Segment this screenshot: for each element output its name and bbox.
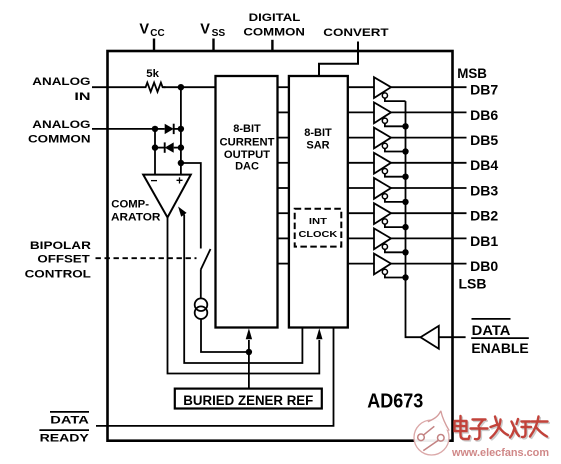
svg-text:DATA: DATA (50, 414, 89, 426)
outer block boundary box (108, 51, 453, 441)
wire enable bus (406, 101, 421, 337)
node diode bottom-right (178, 144, 184, 150)
watermark text dianzifashaoyou shadow (456, 417, 549, 440)
svg-text:DB7: DB7 (470, 82, 498, 98)
svg-text:INT: INT (309, 216, 328, 226)
current source I1 (195, 298, 208, 319)
svg-text:DIGITAL: DIGITAL (249, 12, 301, 24)
svg-text:DB5: DB5 (470, 132, 498, 148)
buffer U2 DB7 (374, 77, 406, 101)
svg-text:SS: SS (212, 28, 226, 39)
node bus junction DB4 (402, 174, 408, 180)
wire DAC-SAR rung 3 (278, 137, 289, 139)
svg-text:MSB: MSB (457, 65, 487, 81)
svg-text:IN: IN (74, 91, 90, 103)
wire SAR output row DB0 (348, 263, 374, 265)
wire SAR strobe to comparator (181, 210, 303, 363)
svg-text:DB6: DB6 (470, 107, 498, 123)
watermark logo circle (414, 411, 449, 455)
wire plus node to switch (181, 163, 201, 249)
arrow into SAR (316, 328, 322, 339)
svg-text:V: V (139, 21, 149, 37)
diode D1 (155, 124, 181, 134)
label 8-BIT CURRENT OUTPUT DAC (220, 123, 275, 173)
wire SAR output row DB7 (348, 86, 374, 88)
svg-text:ANALOG: ANALOG (32, 76, 90, 88)
wire current source to zener node (201, 319, 249, 352)
svg-text:DB4: DB4 (470, 157, 498, 173)
wire SAR output row DB4 (348, 162, 374, 164)
svg-text:ANALOG: ANALOG (32, 119, 90, 131)
wire SAR output row DB5 (348, 137, 374, 139)
svg-text:BIPOLAR: BIPOLAR (30, 240, 91, 252)
wire zener ref to DAC (248, 340, 250, 389)
pin ANALOG IN label (32, 76, 90, 103)
wire clamp to comparator minus (154, 129, 156, 175)
wire DB2 out (391, 212, 467, 214)
wire SAR output row DB2 (348, 212, 374, 214)
op-amp U1 comparator (143, 173, 191, 217)
node bus junction DB1 (402, 249, 408, 255)
node bus junction DB3 (402, 199, 408, 205)
svg-text:COMMON: COMMON (28, 134, 91, 146)
svg-text:READY: READY (40, 433, 90, 445)
buffer U4 DB5 (374, 128, 406, 152)
wire DAC-SAR rung 4 (278, 162, 289, 164)
wire analog-in down to plus node (180, 87, 182, 174)
pin DATA READY label (39, 412, 89, 445)
svg-text:OFFSET: OFFSET (37, 254, 89, 266)
node diode top-left (152, 126, 158, 132)
svg-text:CC: CC (150, 28, 164, 39)
svg-text:BURIED ZENER REF: BURIED ZENER REF (183, 393, 313, 408)
wire DATA READY from SAR (96, 328, 334, 426)
buffer U5 DB4 (374, 153, 406, 177)
buffer U9 DB0 (374, 254, 406, 278)
wire ANALOG IN lead (92, 86, 143, 88)
buffer U3 DB6 (374, 102, 406, 126)
pin ANALOG COMMON label (28, 119, 91, 146)
svg-text:+: + (176, 174, 183, 188)
wire DB0 out (391, 263, 467, 265)
pin VCC label (139, 21, 164, 39)
svg-text:CONVERT: CONVERT (323, 27, 388, 39)
block BURIED ZENER REF box (175, 389, 322, 409)
wire DAC-SAR rung 5 (278, 187, 289, 189)
switch S1 arm (201, 249, 211, 270)
label COMPARATOR (111, 199, 160, 224)
svg-text:CLOCK: CLOCK (299, 229, 339, 239)
resistor R1 5k (143, 68, 165, 92)
buffer U8 DB1 (374, 228, 406, 252)
pin VCC stub (153, 39, 155, 52)
svg-text:OUTPUT: OUTPUT (224, 149, 270, 161)
wire CONVERT to SAR (319, 42, 358, 77)
wire SAR output row DB1 (348, 237, 374, 239)
svg-text:SAR: SAR (306, 140, 329, 152)
arrow into DAC (246, 328, 252, 339)
svg-text:5k: 5k (146, 68, 159, 80)
wire DB7 out (391, 86, 467, 88)
wire DB1 out (391, 237, 467, 239)
block SAR box (289, 76, 348, 328)
svg-text:CURRENT: CURRENT (220, 137, 275, 149)
svg-text:DATA: DATA (472, 322, 511, 338)
wire ANALOG COMMON lead (92, 128, 155, 130)
wire DB4 out (391, 162, 467, 164)
svg-text:AD673: AD673 (367, 389, 423, 412)
wire SAR output row DB6 (348, 111, 374, 113)
svg-text:8-BIT: 8-BIT (233, 123, 261, 135)
svg-text:ENABLE: ENABLE (471, 340, 528, 356)
wire DB5 out (391, 137, 467, 139)
wire DAC-SAR rung 8 (278, 263, 289, 265)
pin VSS label (200, 21, 225, 39)
wire DAC-SAR rung 2 (278, 111, 289, 113)
svg-text:DB2: DB2 (470, 208, 498, 224)
wire DAC-SAR rung 1 (278, 86, 289, 88)
node analog-in junction (178, 84, 184, 90)
wire resistor to DAC (164, 86, 216, 88)
node bus junction DB6 (402, 123, 408, 129)
node bus junction DB0 (402, 274, 408, 280)
watermark text dianzifashaoyou (455, 416, 548, 439)
svg-text:www.elecfans.com: www.elecfans.com (451, 447, 549, 459)
node diode top-right (178, 126, 184, 132)
arrow at comparator (178, 207, 187, 217)
svg-text:DB0: DB0 (470, 258, 498, 274)
wire DAC-SAR rung 6 (278, 212, 289, 214)
wire DB3 out (391, 187, 467, 189)
svg-text:8-BIT: 8-BIT (304, 127, 332, 139)
pin DIGITAL COMMON label (243, 12, 305, 38)
svg-text:CONTROL: CONTROL (25, 269, 91, 281)
svg-text:LSB: LSB (459, 276, 487, 292)
wire SAR output row DB3 (348, 187, 374, 189)
pin DATA ENABLE label (471, 319, 529, 356)
buffer U7 DB2 (374, 203, 406, 227)
buffer U10 DATA ENABLE driver (421, 326, 466, 349)
block INT CLOCK dashed box (295, 209, 342, 247)
buffer U6 DB3 (374, 178, 406, 202)
svg-text:COMMON: COMMON (243, 26, 305, 38)
wire comparator output to SAR (168, 218, 320, 374)
pin VSS stub (212, 39, 214, 52)
svg-text:ARATOR: ARATOR (111, 212, 160, 224)
node comparator plus junction (178, 160, 184, 166)
svg-text:COMP-: COMP- (111, 199, 149, 211)
wire switch to current source (200, 270, 202, 299)
node diode bottom-left (152, 144, 158, 150)
node zener junction (246, 349, 252, 355)
label 8-BIT SAR (304, 127, 332, 152)
svg-text:DAC: DAC (235, 161, 259, 173)
svg-text:−: − (151, 173, 158, 187)
wire DAC-SAR rung 7 (278, 237, 289, 239)
block DAC box (216, 76, 278, 328)
pin DIGITAL COMMON stub (271, 40, 273, 51)
svg-text:DB3: DB3 (470, 182, 498, 198)
node bus junction DB5 (402, 148, 408, 154)
diode D2 (155, 142, 181, 152)
svg-text:DB1: DB1 (470, 233, 498, 249)
node bus junction DB2 (402, 224, 408, 230)
wire bipolar offset dashed control line (96, 257, 197, 259)
wire DB6 out (391, 111, 467, 113)
pin BIPOLAR OFFSET CONTROL label (25, 240, 91, 280)
svg-text:V: V (200, 21, 210, 37)
